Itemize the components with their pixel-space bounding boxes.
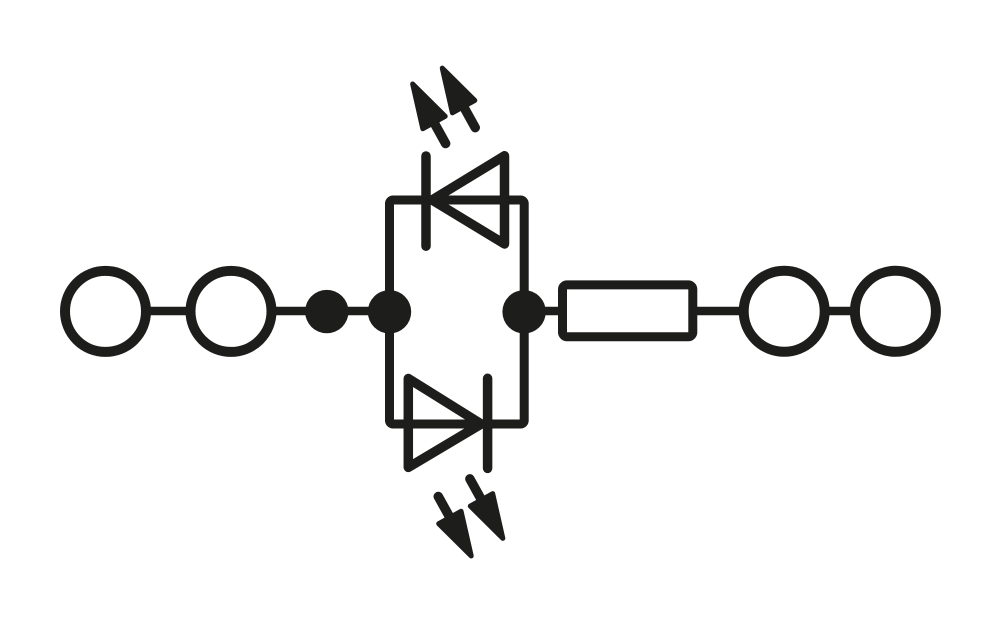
LED D1 light arrow 1 (upper left) [401, 78, 456, 150]
wire T1 to T2 [150, 307, 187, 316]
wire J3 to resistor R1 [524, 307, 562, 316]
LED D1 cathode bar (top branch) [421, 156, 431, 246]
junction dot J3 (on loop right edge) [502, 290, 545, 333]
wire R1 to T3 [697, 307, 740, 316]
LED D2 triangle (points right) [408, 379, 481, 468]
resistor R1 [563, 285, 693, 337]
wire T3 to T4 [829, 307, 851, 316]
terminal circle T4 (far right) [855, 271, 936, 352]
LED D2 light arrow 1 (lower left) [427, 490, 482, 562]
wire T2 to junction dot J1 and on to node at loop left [276, 307, 370, 316]
LED D2 light arrow 2 (lower right) [459, 473, 514, 545]
LED D1 triangle (points left) [432, 156, 505, 244]
terminal circle T3 [744, 271, 825, 352]
LED D1 light arrow 2 (upper right) [431, 62, 486, 134]
LED loop rectangle (anti-parallel LED branch) [390, 200, 525, 424]
terminal circle T1 (far left) [65, 271, 146, 352]
terminal circle T2 [191, 271, 272, 352]
junction dot J1 [305, 290, 348, 333]
LED D2 cathode bar (bottom branch) [483, 378, 493, 468]
junction dot J2 (on loop left edge) [368, 290, 411, 333]
